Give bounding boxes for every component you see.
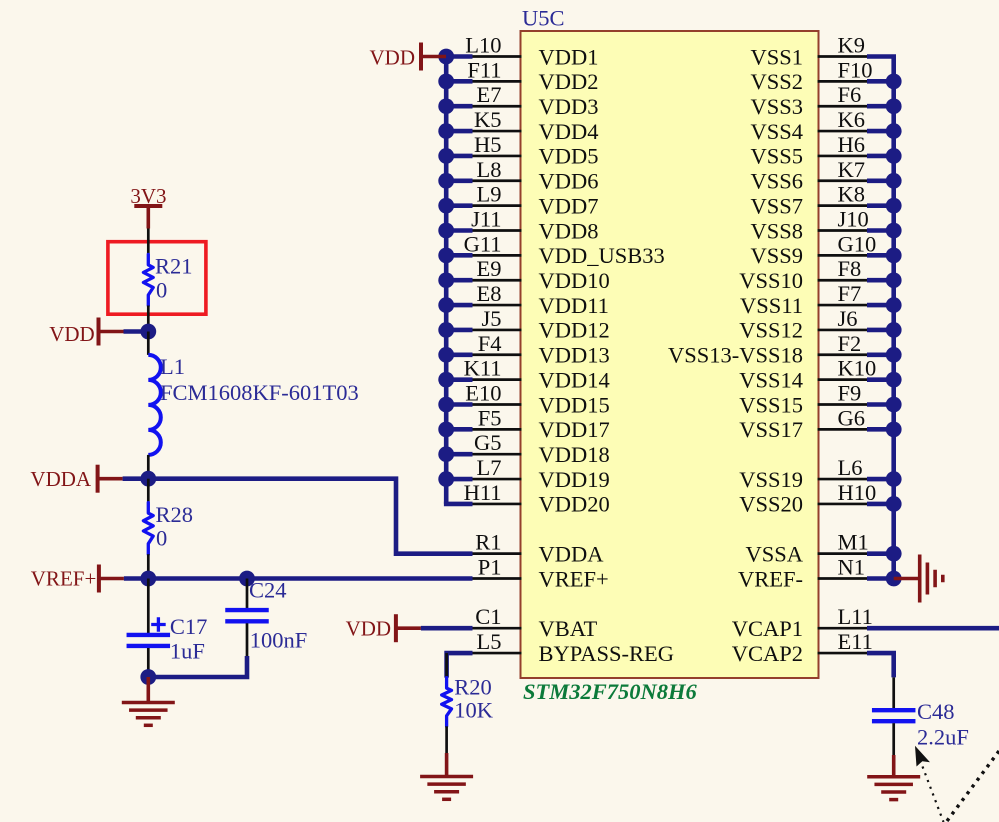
wire VDD to VBAT <box>421 626 473 631</box>
wire VDDA to pin R1 <box>148 479 472 554</box>
svg-text:VSS6: VSS6 <box>750 169 803 194</box>
svg-text:VDD: VDD <box>49 322 95 346</box>
wire VCAP2 to C48 <box>867 653 894 677</box>
pin L7 (VDD19) <box>471 455 610 492</box>
svg-text:VSS14: VSS14 <box>739 367 803 392</box>
pin F11 (VDD2) <box>467 57 598 94</box>
junction dots left bus <box>438 49 454 487</box>
svg-text:F10: F10 <box>838 57 873 82</box>
svg-text:VDD10: VDD10 <box>539 268 610 293</box>
pin L10 (VDD1) <box>465 33 598 70</box>
pin F5 (VDD17) <box>471 405 610 442</box>
pin F2 (VSS13-VSS18) <box>668 331 869 368</box>
IC U5C body <box>521 6 819 679</box>
svg-text:J11: J11 <box>471 206 501 231</box>
svg-text:VDD6: VDD6 <box>539 169 599 194</box>
capacitor C24 <box>225 578 307 657</box>
pin F4 (VDD13) <box>471 331 610 368</box>
pin G10 (VSS9) <box>750 231 876 268</box>
svg-text:R21: R21 <box>155 254 193 279</box>
junction VREF+ at C17 <box>140 571 156 587</box>
power port 3V3 <box>130 184 166 229</box>
svg-text:VSS7: VSS7 <box>750 193 803 218</box>
pin H11 (VDD20) <box>464 480 610 517</box>
wire VCAP1 <box>867 626 999 631</box>
pin N1 (VREF-) <box>738 554 869 591</box>
svg-text:VDD15: VDD15 <box>539 392 610 417</box>
pin F7 (VSS11) <box>740 281 869 318</box>
svg-text:VDD14: VDD14 <box>539 367 610 392</box>
wire VREF+ net <box>124 576 473 581</box>
svg-text:VREF+: VREF+ <box>31 567 97 591</box>
svg-text:K6: K6 <box>838 107 866 132</box>
svg-text:VDD11: VDD11 <box>539 293 609 318</box>
svg-text:E8: E8 <box>477 281 502 306</box>
wire left VDD bus <box>444 57 473 504</box>
svg-text:VSS1: VSS1 <box>750 44 803 69</box>
pin E9 (VDD10) <box>471 256 610 293</box>
ground (under R20) <box>420 753 473 799</box>
svg-text:VDD5: VDD5 <box>539 144 599 169</box>
wire VDD to R21 <box>124 329 149 334</box>
svg-text:K7: K7 <box>838 157 866 182</box>
svg-text:VDDA: VDDA <box>30 467 91 491</box>
pin K9 (VSS1) <box>750 33 869 70</box>
svg-text:VDD3: VDD3 <box>539 94 599 119</box>
svg-text:R20: R20 <box>454 675 492 700</box>
dotted guide line 1 <box>923 767 944 822</box>
svg-text:VDD1: VDD1 <box>539 44 599 69</box>
junction VDD node <box>140 324 156 340</box>
junction ground node at C17 <box>140 669 156 685</box>
pin F6 (VSS3) <box>750 82 869 119</box>
svg-text:G5: G5 <box>474 430 502 455</box>
wire C24 to ground node <box>148 656 247 677</box>
ground (under C48) <box>867 755 920 800</box>
pin L8 (VDD6) <box>471 157 599 194</box>
pin J5 (VDD12) <box>471 306 610 343</box>
resistor R28 <box>143 479 193 579</box>
svg-text:L5: L5 <box>477 629 502 654</box>
svg-text:VSS5: VSS5 <box>750 144 803 169</box>
svg-text:VSS3: VSS3 <box>750 94 803 119</box>
pin K7 (VSS6) <box>750 157 869 194</box>
svg-text:VDDA: VDDA <box>539 541 605 566</box>
junction VREF+ at C24 <box>239 571 255 587</box>
svg-text:3V3: 3V3 <box>130 184 166 208</box>
svg-text:R28: R28 <box>156 502 194 527</box>
svg-text:H10: H10 <box>838 480 877 505</box>
svg-text:VDD2: VDD2 <box>539 69 599 94</box>
pin K5 (VDD4) <box>471 107 599 144</box>
svg-text:0: 0 <box>156 278 167 303</box>
svg-text:VBAT: VBAT <box>539 616 598 641</box>
svg-text:K9: K9 <box>838 33 866 58</box>
svg-text:L6: L6 <box>838 455 863 480</box>
svg-text:L1: L1 <box>160 354 185 379</box>
svg-text:VSS4: VSS4 <box>750 119 803 144</box>
svg-text:N1: N1 <box>838 554 866 579</box>
svg-text:VDD_USB33: VDD_USB33 <box>539 243 665 268</box>
svg-text:VDD18: VDD18 <box>539 442 610 467</box>
svg-text:L7: L7 <box>477 455 502 480</box>
pin G6 (VSS17) <box>739 405 869 442</box>
svg-text:VDD8: VDD8 <box>539 218 599 243</box>
pin C1 (VBAT) <box>471 604 598 641</box>
power port VDD (top) <box>370 43 447 71</box>
svg-text:0: 0 <box>156 526 167 551</box>
svg-text:F6: F6 <box>838 82 862 107</box>
svg-text:VDD7: VDD7 <box>539 193 599 218</box>
resistor R21 <box>143 229 192 332</box>
svg-text:VDD20: VDD20 <box>539 492 610 517</box>
svg-text:VSS11: VSS11 <box>740 293 803 318</box>
power port VDDA <box>30 465 122 493</box>
svg-text:L11: L11 <box>838 604 873 629</box>
pin E7 (VDD3) <box>471 82 599 119</box>
inductor L1 <box>148 332 358 479</box>
svg-text:M1: M1 <box>838 530 869 555</box>
svg-text:E10: E10 <box>465 380 501 405</box>
pin K11 (VDD14) <box>464 356 610 393</box>
svg-text:VREF-: VREF- <box>738 566 803 591</box>
power port VDD (left) <box>49 318 123 347</box>
svg-text:U5C: U5C <box>522 6 565 31</box>
pin J10 (VSS8) <box>750 206 869 243</box>
svg-text:G6: G6 <box>838 405 866 430</box>
junction VDDA node <box>140 471 156 487</box>
svg-text:VSS13-VSS18: VSS13-VSS18 <box>668 343 803 368</box>
pin J6 (VSS12) <box>739 306 869 343</box>
svg-text:VSS15: VSS15 <box>739 392 803 417</box>
wire VDDA node <box>123 476 149 481</box>
svg-text:F5: F5 <box>478 405 502 430</box>
svg-text:VSS10: VSS10 <box>739 268 803 293</box>
pin L6 (VSS19) <box>739 455 869 492</box>
svg-text:VCAP1: VCAP1 <box>732 616 803 641</box>
svg-text:F11: F11 <box>467 57 501 82</box>
svg-text:F7: F7 <box>838 281 862 306</box>
svg-text:C24: C24 <box>249 578 287 603</box>
junction dots right bus <box>886 73 902 586</box>
svg-text:L8: L8 <box>477 157 502 182</box>
ground (under C17) <box>122 677 175 725</box>
pin K8 (VSS7) <box>750 182 869 219</box>
svg-text:L9: L9 <box>477 182 502 207</box>
pin G5 (VDD18) <box>471 430 610 467</box>
svg-text:F9: F9 <box>838 380 862 405</box>
svg-text:VSS20: VSS20 <box>739 492 803 517</box>
svg-text:P1: P1 <box>478 554 502 579</box>
svg-text:G10: G10 <box>838 231 877 256</box>
svg-text:VDD: VDD <box>346 617 392 641</box>
svg-text:H5: H5 <box>474 132 502 157</box>
pin K10 (VSS14) <box>739 356 876 393</box>
svg-text:VSS9: VSS9 <box>750 243 803 268</box>
svg-text:E9: E9 <box>477 256 502 281</box>
dotted guide line 2 <box>947 751 999 821</box>
svg-text:10K: 10K <box>454 697 494 722</box>
pin J11 (VDD8) <box>471 206 599 243</box>
svg-text:K11: K11 <box>464 356 502 381</box>
pin K6 (VSS4) <box>750 107 869 144</box>
pin E10 (VDD15) <box>465 380 610 417</box>
svg-text:H11: H11 <box>464 480 502 505</box>
svg-text:K10: K10 <box>838 356 877 381</box>
svg-text:F2: F2 <box>838 331 862 356</box>
pin H5 (VDD5) <box>471 132 599 169</box>
pin L5 (BYPASS-REG) <box>471 629 674 666</box>
pin L9 (VDD7) <box>471 182 599 219</box>
svg-text:C48: C48 <box>917 699 955 724</box>
wire BYPASS-REG to R20 <box>447 653 473 678</box>
pin P1 (VREF+) <box>471 554 609 591</box>
svg-text:VCAP2: VCAP2 <box>732 641 803 666</box>
svg-text:H6: H6 <box>838 132 866 157</box>
svg-text:FCM1608KF-601T03: FCM1608KF-601T03 <box>160 380 359 405</box>
svg-text:VDD19: VDD19 <box>539 467 610 492</box>
svg-text:VSS8: VSS8 <box>750 218 803 243</box>
resistor R20 <box>442 653 494 753</box>
svg-text:BYPASS-REG: BYPASS-REG <box>539 641 674 666</box>
svg-text:VDD13: VDD13 <box>539 343 610 368</box>
pin F8 (VSS10) <box>739 256 869 293</box>
wire right VSS bus <box>867 57 896 579</box>
selection highlight box around R21 <box>108 242 206 315</box>
svg-text:J6: J6 <box>838 306 858 331</box>
pin F10 (VSS2) <box>750 57 872 94</box>
svg-text:E7: E7 <box>477 82 502 107</box>
svg-text:VDD: VDD <box>370 46 416 70</box>
svg-text:VDD4: VDD4 <box>539 119 599 144</box>
svg-text:J5: J5 <box>481 306 501 331</box>
svg-text:VSSA: VSSA <box>745 541 803 566</box>
svg-text:C17: C17 <box>170 614 208 639</box>
svg-text:J10: J10 <box>838 206 869 231</box>
svg-text:G11: G11 <box>464 231 502 256</box>
svg-text:VDD17: VDD17 <box>539 417 610 442</box>
capacitor C48 <box>872 677 969 755</box>
pin G11 (VDD_USB33) <box>464 231 665 268</box>
pin H6 (VSS5) <box>750 132 869 169</box>
power port VDD (VBAT) <box>346 614 421 642</box>
pin E8 (VDD11) <box>471 281 609 318</box>
pin F9 (VSS15) <box>739 380 869 417</box>
svg-text:F8: F8 <box>838 256 862 281</box>
svg-text:100nF: 100nF <box>250 628 308 653</box>
capacitor C17 <box>127 579 208 678</box>
svg-text:2.2uF: 2.2uF <box>917 725 969 750</box>
svg-text:E11: E11 <box>838 629 873 654</box>
svg-text:VSS19: VSS19 <box>739 467 803 492</box>
svg-text:VREF+: VREF+ <box>539 566 609 591</box>
svg-text:F4: F4 <box>478 331 502 356</box>
svg-text:VSS2: VSS2 <box>750 69 803 94</box>
part value STM32F750N8H6 <box>523 679 698 704</box>
svg-text:K5: K5 <box>474 107 502 132</box>
svg-text:VDD12: VDD12 <box>539 318 610 343</box>
svg-text:R1: R1 <box>475 530 501 555</box>
pin L11 (VCAP1) <box>732 604 873 641</box>
svg-text:VSS17: VSS17 <box>739 417 803 442</box>
pin E11 (VCAP2) <box>732 629 873 666</box>
svg-text:STM32F750N8H6: STM32F750N8H6 <box>523 679 698 704</box>
pin R1 (VDDA) <box>471 530 605 567</box>
mouse cursor <box>915 746 930 767</box>
pin H10 (VSS20) <box>739 480 876 517</box>
svg-text:VSS12: VSS12 <box>739 318 803 343</box>
svg-text:K8: K8 <box>838 182 866 207</box>
power port VREF+ <box>31 565 124 593</box>
ground (VREF-, rotated) <box>894 554 943 602</box>
svg-text:1uF: 1uF <box>170 639 205 664</box>
svg-text:L10: L10 <box>465 33 501 58</box>
pin M1 (VSSA) <box>745 530 869 567</box>
svg-text:C1: C1 <box>475 604 501 629</box>
